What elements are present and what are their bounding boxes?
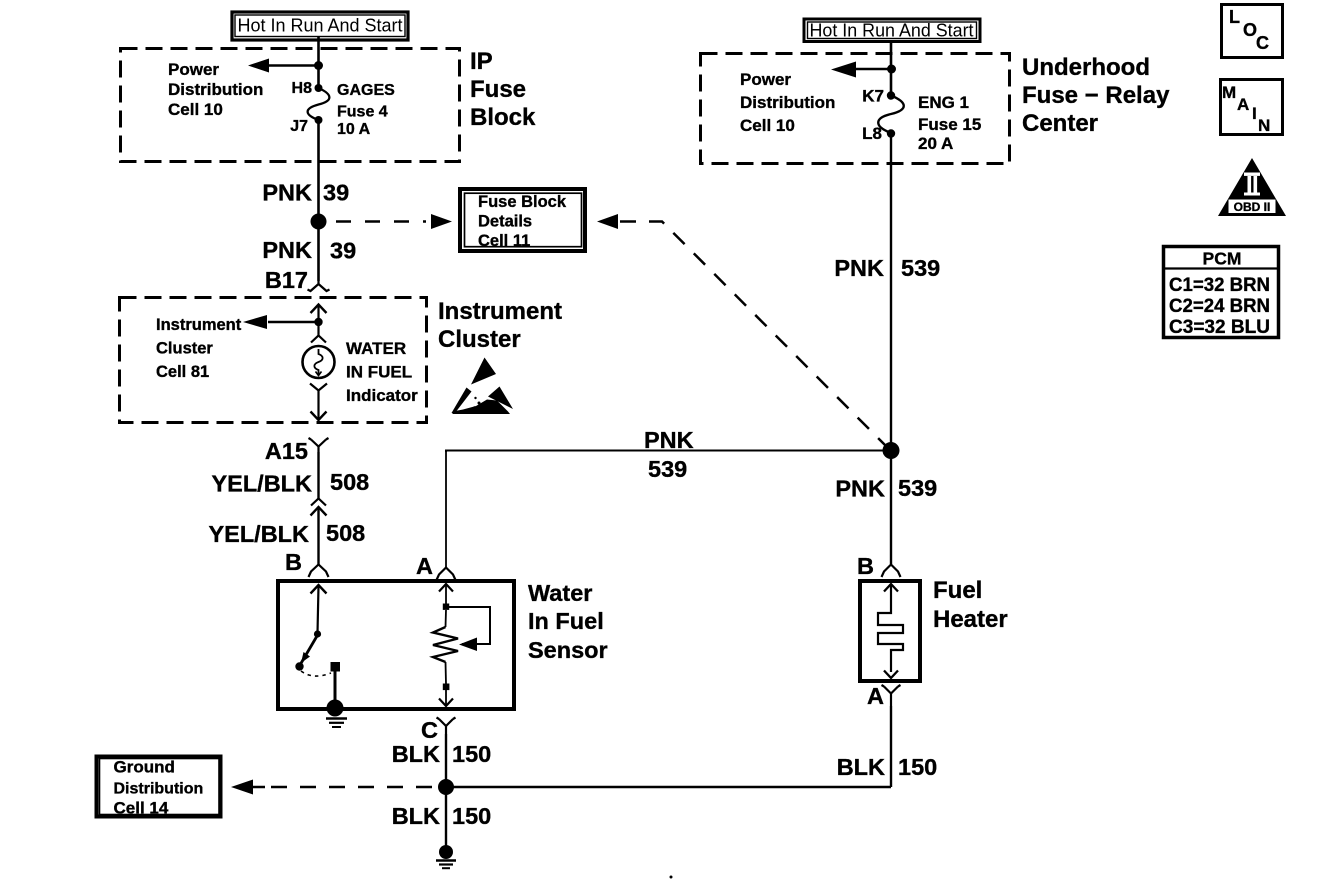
svg-text:150: 150 bbox=[898, 754, 937, 780]
svg-text:BLK: BLK bbox=[392, 803, 440, 829]
svg-text:Cell 81: Cell 81 bbox=[156, 363, 209, 381]
junction dot in IP fuse block bbox=[314, 61, 323, 70]
svg-text:Fuse − Relay: Fuse − Relay bbox=[1022, 82, 1170, 109]
sensor switch contact bbox=[331, 662, 341, 708]
svg-text:B17: B17 bbox=[265, 267, 308, 293]
power label "Hot In Run And Start" (right) bbox=[804, 19, 980, 42]
svg-text:Distribution: Distribution bbox=[168, 80, 263, 99]
lamp connector fork (lower) bbox=[310, 384, 327, 396]
svg-text:PCM: PCM bbox=[1203, 249, 1242, 269]
ESD sensitivity symbol bbox=[452, 358, 514, 415]
svg-text:39: 39 bbox=[330, 238, 356, 264]
text: Power Distribution Cell 10 (right) bbox=[740, 70, 835, 135]
svg-text:539: 539 bbox=[898, 475, 937, 501]
svg-text:OBD II: OBD II bbox=[1234, 200, 1271, 214]
svg-text:PNK: PNK bbox=[262, 180, 312, 206]
fuse GAGES Fuse 4 10 A with terminals H8 / J7 bbox=[290, 80, 395, 138]
wire: feed from Hot In Run And Start into IP fuse block bbox=[317, 37, 320, 88]
wire BLK 150 (heater side) bbox=[837, 706, 938, 787]
svg-text:Power: Power bbox=[168, 60, 219, 79]
svg-text:BLK: BLK bbox=[392, 741, 440, 767]
label: Fuel Heater bbox=[933, 577, 1008, 633]
WATER IN FUEL indicator lamp bbox=[303, 346, 335, 378]
scan speck bbox=[670, 876, 673, 879]
svg-text:A15: A15 bbox=[265, 438, 308, 464]
svg-text:PNK: PNK bbox=[644, 427, 694, 453]
svg-text:508: 508 bbox=[330, 469, 369, 495]
arrow to Power Distribution Cell 10 (left) bbox=[248, 59, 319, 73]
svg-text:Hot In Run And Start: Hot In Run And Start bbox=[237, 16, 402, 36]
arrow to Power Distribution Cell 10 (right) bbox=[831, 62, 891, 78]
svg-text:PNK: PNK bbox=[835, 476, 885, 502]
connector A of sensor (fork) bbox=[416, 553, 455, 580]
svg-text:A: A bbox=[416, 553, 433, 579]
PCM connector table bbox=[1163, 247, 1279, 339]
svg-text:39: 39 bbox=[323, 180, 349, 206]
svg-text:Sensor: Sensor bbox=[528, 637, 608, 663]
svg-text:YEL/BLK: YEL/BLK bbox=[208, 521, 309, 547]
svg-text:IN FUEL: IN FUEL bbox=[346, 363, 412, 382]
wire BLK 150 (sensor side) bbox=[392, 734, 492, 847]
svg-text:C3=32 BLU: C3=32 BLU bbox=[1169, 317, 1270, 338]
svg-text:ENG 1: ENG 1 bbox=[918, 93, 969, 112]
connector B of fuel heater (fork) bbox=[857, 553, 900, 579]
svg-text:C2=24 BRN: C2=24 BRN bbox=[1169, 296, 1270, 317]
wire: BLK 150 to fuel heater ground leg bbox=[446, 786, 891, 789]
svg-text:508: 508 bbox=[326, 520, 365, 546]
svg-text:Distribution: Distribution bbox=[114, 781, 204, 798]
sensor resistor lower contact and arrow down to pin C bbox=[439, 684, 453, 707]
svg-text:M: M bbox=[1222, 83, 1236, 102]
svg-text:Block: Block bbox=[470, 104, 536, 131]
svg-text:PNK: PNK bbox=[262, 237, 312, 263]
sensor variable resistor bbox=[433, 610, 458, 684]
connector A of fuel heater (fork) bbox=[867, 683, 900, 709]
svg-text:A: A bbox=[1237, 95, 1249, 114]
svg-text:N: N bbox=[1258, 116, 1270, 135]
svg-text:Power: Power bbox=[740, 70, 791, 89]
svg-text:C: C bbox=[421, 717, 438, 743]
svg-text:C: C bbox=[1256, 33, 1269, 53]
svg-text:Fuse 15: Fuse 15 bbox=[918, 115, 981, 134]
wire YEL/BLK 508 (upper) bbox=[211, 452, 369, 499]
in-line splice connector on YEL/BLK bbox=[311, 499, 327, 516]
svg-text:Heater: Heater bbox=[933, 606, 1008, 633]
ground (sensor case) bbox=[326, 719, 347, 728]
svg-text:C1=32 BRN: C1=32 BRN bbox=[1169, 275, 1270, 296]
svg-text:150: 150 bbox=[452, 803, 491, 829]
svg-text:H8: H8 bbox=[292, 80, 313, 97]
svg-text:Water: Water bbox=[528, 580, 592, 606]
svg-text:In Fuel: In Fuel bbox=[528, 608, 604, 634]
svg-text:Fuse Block: Fuse Block bbox=[478, 193, 567, 211]
connector C (fork) bbox=[421, 717, 456, 743]
svg-text:150: 150 bbox=[452, 741, 491, 767]
svg-text:L8: L8 bbox=[862, 124, 882, 143]
svg-text:Cluster: Cluster bbox=[438, 326, 521, 353]
dashed reference to Ground Distribution Cell 14 bbox=[231, 780, 432, 795]
arrow up into cluster (male connector half) bbox=[311, 305, 327, 323]
arrow to Instrument Cluster Cell 81 bbox=[243, 315, 319, 329]
svg-text:WATER: WATER bbox=[346, 339, 406, 358]
svg-text:Instrument: Instrument bbox=[156, 316, 242, 334]
Water In Fuel Sensor box bbox=[278, 581, 514, 709]
svg-text:Indicator: Indicator bbox=[346, 386, 418, 405]
svg-text:Ground: Ground bbox=[114, 758, 175, 777]
grid symbol MAIN bbox=[1221, 80, 1283, 136]
text: Power Distribution Cell 10 (left) bbox=[168, 60, 263, 119]
ground G (bottom) bbox=[436, 845, 456, 868]
svg-text:B: B bbox=[857, 553, 874, 579]
wire YEL/BLK 508 (lower) bbox=[208, 508, 365, 565]
text: Instrument Cluster Cell 81 bbox=[156, 316, 242, 381]
svg-text:Cell 10: Cell 10 bbox=[168, 100, 223, 119]
svg-text:Instrument: Instrument bbox=[438, 298, 562, 325]
sensor switch travel (dashed arc) bbox=[301, 671, 331, 676]
svg-text:Distribution: Distribution bbox=[740, 93, 835, 112]
label: Instrument Cluster bbox=[438, 298, 562, 353]
Fuel Heater box bbox=[860, 581, 920, 681]
junction dot on PNK 39 bbox=[311, 214, 327, 230]
sensor resistor: arrow up at pin A bbox=[439, 584, 453, 610]
svg-text:YEL/BLK: YEL/BLK bbox=[211, 471, 312, 497]
junction dot in cluster bbox=[314, 318, 322, 326]
junction dot on PNK 539 bbox=[883, 442, 900, 459]
label: Underhood Fuse-Relay Center bbox=[1022, 54, 1170, 137]
connector A15 (fork) bbox=[265, 438, 329, 464]
sensor switch blade bbox=[295, 636, 317, 671]
grid symbol LOC bbox=[1222, 5, 1283, 58]
wire PNK 539 (vertical) bbox=[834, 133, 940, 564]
label: IP Fuse Block bbox=[470, 48, 536, 131]
svg-text:I: I bbox=[1252, 104, 1257, 123]
svg-text:O: O bbox=[1243, 20, 1257, 40]
Fuse Block Details Cell 11 box bbox=[460, 189, 585, 251]
svg-text:A: A bbox=[867, 683, 884, 709]
svg-text:K7: K7 bbox=[862, 87, 884, 106]
svg-text:Underhood: Underhood bbox=[1022, 54, 1150, 81]
svg-text:BLK: BLK bbox=[837, 754, 885, 780]
svg-text:Hot In Run And Start: Hot In Run And Start bbox=[810, 21, 974, 41]
sensor feedback loop with arrow into resistor bbox=[446, 607, 490, 651]
dashed reference from PNK 539 junction to Fuse Block Details bbox=[597, 214, 889, 449]
junction dot in underhood center bbox=[887, 65, 896, 74]
svg-text:Details: Details bbox=[478, 213, 532, 231]
junction dot on sensor case ground bbox=[327, 700, 344, 717]
connector B of sensor (fork) bbox=[285, 549, 328, 577]
wire PNK 39 bbox=[262, 120, 356, 281]
wire PNK 539 (horizontal to sensor) bbox=[446, 427, 883, 567]
svg-text:B: B bbox=[285, 549, 302, 575]
lamp connector fork (upper) bbox=[311, 322, 326, 343]
svg-text:PNK: PNK bbox=[834, 255, 884, 281]
svg-text:10 A: 10 A bbox=[337, 121, 371, 138]
power label "Hot In Run And Start" (left) bbox=[232, 12, 408, 40]
OBD II triangle symbol bbox=[1218, 158, 1286, 216]
svg-text:J7: J7 bbox=[290, 118, 308, 135]
IP Fuse Block dashed box bbox=[121, 49, 460, 162]
svg-text:Fuel: Fuel bbox=[933, 577, 982, 604]
junction dot on BLK 150 bbox=[438, 779, 454, 795]
Instrument Cluster dashed box bbox=[120, 298, 427, 423]
fuse ENG 1 Fuse 15 20 A with terminals K7 / L8 bbox=[862, 87, 981, 154]
dashed reference arrow to Fuse Block Details bbox=[336, 214, 452, 229]
svg-text:539: 539 bbox=[901, 255, 940, 281]
svg-text:Cluster: Cluster bbox=[156, 340, 213, 358]
sensor switch pivot dot bbox=[314, 630, 321, 637]
svg-text:L: L bbox=[1229, 7, 1240, 27]
svg-text:Fuse 4: Fuse 4 bbox=[337, 104, 388, 121]
fuel heater element bbox=[878, 584, 903, 678]
label: Water In Fuel Sensor bbox=[528, 580, 608, 663]
sensor switch: arrow up at pin B bbox=[311, 585, 327, 633]
svg-text:Cell 14: Cell 14 bbox=[114, 799, 169, 818]
svg-text:IP: IP bbox=[470, 48, 493, 75]
svg-text:Center: Center bbox=[1022, 110, 1098, 137]
Ground Distribution Cell 14 box bbox=[97, 757, 221, 818]
wire: feed into underhood fuse-relay center bbox=[890, 42, 893, 96]
connector B17 (fork) bbox=[265, 267, 330, 293]
arrow down to connector A15 bbox=[311, 395, 327, 420]
svg-text:539: 539 bbox=[648, 456, 687, 482]
svg-text:Cell 11: Cell 11 bbox=[478, 232, 530, 250]
text: WATER IN FUEL Indicator bbox=[346, 339, 418, 405]
Underhood Fuse-Relay Center dashed box bbox=[701, 54, 1010, 164]
svg-text:Cell 10: Cell 10 bbox=[740, 116, 795, 135]
svg-text:Fuse: Fuse bbox=[470, 76, 526, 103]
svg-text:GAGES: GAGES bbox=[337, 82, 395, 99]
svg-text:20 A: 20 A bbox=[918, 134, 953, 153]
